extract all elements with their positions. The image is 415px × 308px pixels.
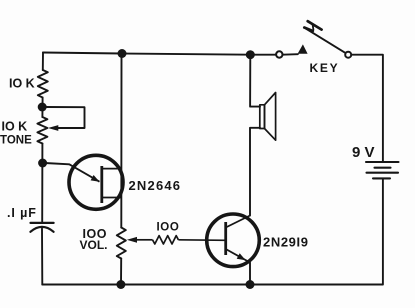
svg-text:2N29I9: 2N29I9 (263, 234, 309, 249)
svg-text:.I µF: .I µF (7, 206, 37, 220)
svg-text:IO K: IO K (2, 120, 28, 134)
svg-text:KEY: KEY (310, 61, 340, 75)
svg-text:VOL.: VOL. (80, 238, 108, 252)
svg-text:IOO: IOO (157, 222, 180, 234)
svg-text:TONE: TONE (0, 134, 32, 146)
svg-text:9 V: 9 V (352, 144, 375, 161)
svg-text:IO K: IO K (9, 77, 35, 91)
svg-text:2N2646: 2N2646 (129, 178, 182, 193)
